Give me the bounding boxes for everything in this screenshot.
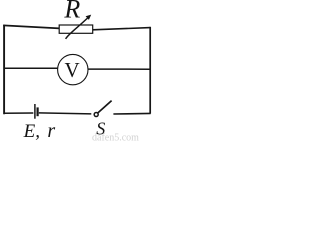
- svg-text:r: r: [47, 120, 55, 142]
- svg-text:V: V: [65, 58, 80, 82]
- svg-text:dafen5.com: dafen5.com: [92, 132, 139, 142]
- svg-text:R: R: [63, 0, 80, 24]
- svg-text:E,: E,: [23, 121, 40, 142]
